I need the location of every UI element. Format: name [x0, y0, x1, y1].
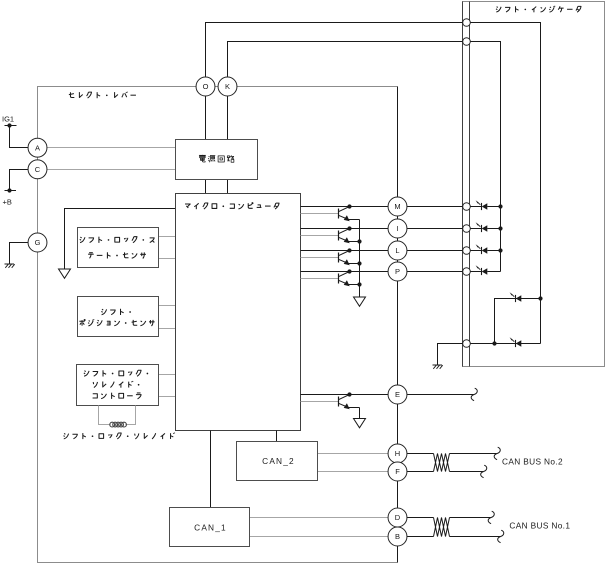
wire CAN No.1 high — [450, 517, 491, 519]
wire indicator pin2 to bus K — [470, 42, 500, 272]
wire solenoid left leg — [99, 406, 111, 425]
wire break E — [471, 388, 477, 401]
shift indicator box — [463, 2, 605, 367]
wire indicator pin1 to bus O — [470, 23, 540, 299]
label shift indicator — [496, 6, 581, 12]
ground (body earth near G) — [5, 263, 15, 265]
wire diode loop bottom — [470, 343, 540, 345]
junction LED M anode — [498, 204, 502, 208]
wire CAN_1 to microcomputer — [210, 431, 212, 508]
wire pin C to power circuit — [47, 169, 176, 171]
wire CAN_1 to pin D — [250, 517, 389, 519]
svg-text:K: K — [225, 82, 230, 91]
wire K to indicator pin 2 — [228, 42, 463, 78]
wire pin D external — [407, 517, 434, 519]
twisted pair CAN No.2 — [434, 454, 450, 472]
wire microcomputer output E — [301, 394, 389, 396]
label solenoid controller line1 — [84, 370, 148, 376]
wire position sensor out 1 — [159, 305, 176, 307]
svg-text:M: M — [394, 202, 400, 211]
junction LED I anode — [498, 226, 502, 230]
shift lock solenoid controller box — [77, 365, 159, 406]
wire pin row P to indicator — [407, 271, 463, 273]
label select lever — [69, 92, 136, 98]
connector pin I — [388, 219, 407, 238]
wire CAN_2 to microcomputer — [276, 431, 278, 442]
select lever assembly box (3 gray sides) — [38, 87, 398, 563]
wire break CAN No.2 high — [494, 447, 500, 460]
shift position sensor box — [78, 297, 159, 337]
wire CAN_1 to pin B — [250, 536, 389, 538]
indicator connector pin 5 — [463, 247, 471, 255]
wire CAN No.2 high — [450, 453, 497, 455]
twisted pair CAN No.1 — [434, 518, 450, 537]
label shift lock state sensor line2 — [88, 252, 146, 258]
indicator connector pin 1 — [463, 19, 471, 27]
svg-text:G: G — [35, 238, 41, 247]
svg-text:A: A — [35, 143, 40, 152]
internal ground arrow (Q5 emitter) — [354, 419, 366, 428]
wire K to power circuit — [227, 96, 229, 140]
label microcomputer — [185, 203, 279, 210]
wire transistor Q1 base — [301, 213, 339, 215]
shift indicator connector left line — [462, 2, 464, 367]
junction Q2 collector — [347, 226, 351, 230]
wire CAN No.2 low — [450, 471, 484, 473]
wire IG1 to pin A — [10, 126, 29, 148]
power circuit box — [176, 140, 258, 180]
indicator connector pin 2 — [463, 38, 471, 46]
CAN_1 transceiver box — [170, 508, 250, 547]
connector pin G — [28, 233, 47, 252]
wire solenoid controller out 2 — [159, 396, 176, 398]
svg-text:F: F — [395, 467, 400, 476]
junction bus O / loop — [538, 296, 542, 300]
wire pin G to ground — [10, 243, 29, 265]
wire state sensor out 1 — [159, 236, 176, 238]
connector pin K — [218, 77, 237, 96]
connector pin H — [388, 444, 407, 463]
svg-text:L: L — [395, 246, 399, 255]
internal ground arrow (sensor common) — [59, 269, 71, 278]
label solenoid controller line3 — [93, 393, 142, 399]
label power circuit — [199, 155, 234, 162]
connector pin C — [28, 160, 47, 179]
indicator connector pin 6 — [463, 268, 471, 276]
junction Q5 collector — [347, 392, 351, 396]
wire transistor Q4 base — [301, 278, 339, 280]
wire diode loop top — [495, 299, 541, 344]
connector pin M — [388, 197, 407, 216]
indicator LED M — [470, 206, 481, 208]
wire pin row M to indicator — [407, 206, 463, 208]
connector pin B — [388, 527, 407, 546]
wire break CAN No.2 low — [481, 465, 487, 478]
wire break CAN No.1 high — [488, 511, 494, 524]
wire pin row I to indicator — [407, 228, 463, 230]
svg-text:+B: +B — [3, 197, 12, 206]
transistor Q5 — [338, 397, 340, 407]
ground (shift indicator) — [433, 364, 443, 366]
junction Q1 collector — [347, 204, 351, 208]
diode D2 (loop bottom) — [515, 340, 517, 347]
wire O to indicator pin 1 — [206, 23, 463, 78]
svg-text:IG1: IG1 — [2, 115, 14, 124]
junction loop bottom-left — [492, 341, 496, 345]
transistor Q2 — [338, 231, 340, 241]
svg-text:CAN BUS No.2: CAN BUS No.2 — [502, 457, 563, 467]
wire indicator pin7 to ground — [438, 344, 463, 366]
wire CAN_2 to pin F — [318, 471, 389, 473]
wire CAN No.1 low — [450, 536, 501, 538]
junction Q4 collector — [347, 269, 351, 273]
label shift position sensor line2 — [79, 319, 154, 326]
svg-text:H: H — [395, 449, 400, 458]
wire CAN_2 to pin H — [318, 453, 389, 455]
connector pin D — [388, 508, 407, 527]
junction Q3 collector — [347, 248, 351, 252]
wire microcomputer output P — [301, 271, 389, 273]
wire pin E external — [407, 394, 474, 396]
connector pin F — [388, 462, 407, 481]
ECU pin bus (right edge, node chain M-I-L-P-E-H-F-D-B) — [397, 87, 399, 563]
label shift position sensor line1 — [101, 309, 131, 315]
wire microcomputer to internal ground arrow — [65, 209, 176, 270]
wire microcomputer output I — [301, 228, 389, 230]
label shift lock solenoid — [64, 433, 175, 439]
CAN_2 transceiver box — [237, 442, 318, 481]
transistor Q1 — [338, 209, 340, 219]
svg-text:B: B — [395, 532, 400, 541]
wire transistor Q3 base — [301, 257, 339, 259]
svg-text:CAN_1: CAN_1 — [194, 522, 227, 532]
wire position sensor out 2 — [159, 328, 176, 330]
shift indicator connector face (double line) — [469, 2, 471, 367]
label solenoid controller line2 — [93, 381, 139, 388]
wire pin row L to indicator — [407, 250, 463, 252]
svg-text:CAN BUS No.1: CAN BUS No.1 — [509, 520, 570, 530]
wire state sensor out 2 — [159, 258, 176, 260]
emitter bus Q1-Q4 — [359, 220, 361, 298]
shift lock state sensor box — [78, 228, 159, 268]
junction LED L anode — [498, 248, 502, 252]
connector pin O — [196, 77, 215, 96]
wire power circuit to microcomputer (2) — [227, 180, 229, 194]
wire pin F external — [407, 471, 434, 473]
wire solenoid controller out 1 — [159, 374, 176, 376]
svg-text:E: E — [395, 390, 400, 399]
junction Q4 emitter — [357, 282, 361, 286]
wire solenoid right leg — [126, 406, 136, 425]
indicator LED P — [470, 271, 481, 273]
transistor Q3 — [338, 253, 340, 263]
connector pin E — [388, 385, 407, 404]
wire transistor Q2 base — [301, 235, 339, 237]
wire pin A to power circuit — [47, 147, 176, 149]
svg-text:C: C — [35, 165, 41, 174]
wire +B to pin C — [10, 170, 29, 191]
wire pin H external — [407, 453, 434, 455]
wire LED I to bus — [487, 228, 500, 230]
svg-text:CAN_2: CAN_2 — [262, 456, 295, 466]
junction Q2 emitter — [357, 239, 361, 243]
svg-text:O: O — [203, 82, 209, 91]
indicator connector pin 4 — [463, 225, 471, 233]
wire pin B external — [407, 536, 434, 538]
label shift lock state sensor line1 — [80, 237, 155, 243]
connector pin A — [28, 138, 47, 157]
wire LED P to bus — [487, 271, 500, 273]
wire microcomputer output L — [301, 250, 389, 252]
svg-text:D: D — [395, 513, 401, 522]
wire LED M to bus — [487, 206, 500, 208]
transistor Q4 — [338, 274, 340, 284]
wire diode loop right — [540, 299, 542, 344]
connector pin L — [388, 241, 407, 260]
connector pin P — [388, 262, 407, 281]
+B terminal dot — [7, 188, 11, 192]
IG1 terminal tick — [5, 125, 17, 127]
wire break CAN No.1 low — [498, 530, 504, 543]
solenoid coil L1 — [110, 422, 115, 427]
wire microcomputer output M — [301, 206, 389, 208]
indicator LED L — [470, 250, 481, 252]
wire Q5 emitter to ground arrow — [359, 408, 361, 419]
indicator LED I — [470, 228, 481, 230]
indicator connector pin 3 — [463, 203, 471, 211]
svg-text:P: P — [395, 267, 400, 276]
wire LED L to bus — [487, 250, 500, 252]
svg-text:I: I — [396, 224, 398, 233]
junction Q3 emitter — [357, 261, 361, 265]
microcomputer box — [176, 194, 301, 431]
diode D1 (loop top) — [515, 295, 517, 302]
IG1 terminal dot — [7, 123, 11, 127]
internal ground arrow (transistor emitters) — [354, 297, 366, 306]
wire O to power circuit — [205, 96, 207, 140]
indicator connector pin 7 — [463, 340, 471, 348]
wire power circuit to microcomputer (1) — [205, 180, 207, 194]
wire transistor Q5 base — [301, 401, 339, 403]
+B terminal tick — [5, 190, 17, 192]
